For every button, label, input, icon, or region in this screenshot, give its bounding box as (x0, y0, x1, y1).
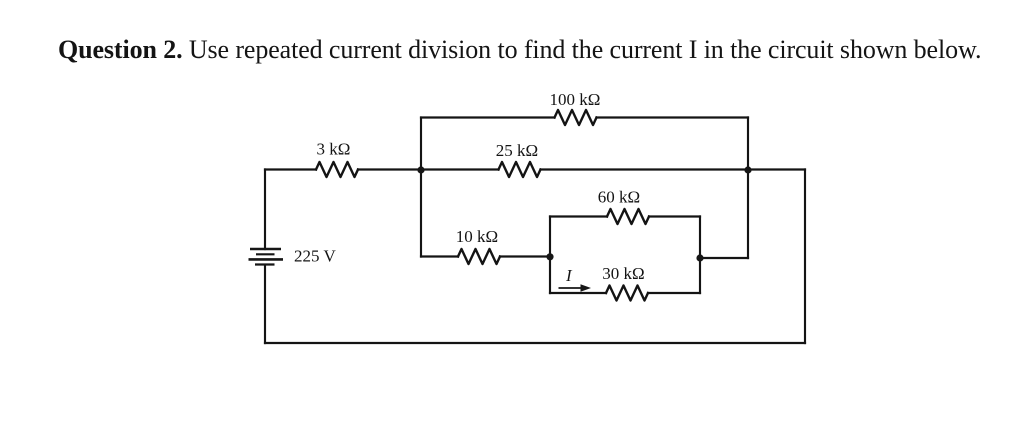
node D junction dot (700,258) (696, 254, 703, 261)
wire: bottom rail y=343 (265, 342, 805, 344)
svg-text:10 kΩ: 10 kΩ (456, 227, 498, 246)
battery V1 225V plates (249, 249, 284, 265)
wire: inner box top left of 60k (550, 215, 607, 217)
wire: left vertical above battery (264, 170, 266, 250)
wire: 10k branch right segment to inner box (500, 255, 550, 257)
svg-text:100 kΩ: 100 kΩ (550, 90, 601, 109)
svg-text:25 kΩ: 25 kΩ (496, 141, 538, 160)
wire: inner box top right of 60k (649, 215, 700, 217)
resistor R 3k zigzag (316, 162, 358, 177)
wire: top branch horizontal left of 100k (421, 116, 555, 118)
node A junction dot (421,170) (417, 166, 424, 173)
wire: top branch left vertical x=421 (420, 118, 422, 170)
current arrow for I (559, 284, 592, 291)
svg-text:Question 2. Use repeated curre: Question 2. Use repeated current divisio… (58, 35, 981, 64)
svg-text:60 kΩ: 60 kΩ (598, 187, 640, 206)
wire: inner box bottom right of 30k (648, 292, 700, 294)
svg-text:225 V: 225 V (294, 247, 336, 266)
wire: horizontal y=258 from inner box to x=748 (700, 257, 748, 259)
resistor R 30k zigzag (606, 286, 648, 301)
node C junction dot (550,257) (546, 253, 553, 260)
wire: vertical x=421 from rail down to 10k branch (420, 170, 422, 257)
resistor R 10k zigzag (458, 249, 500, 264)
svg-text:I: I (565, 266, 573, 285)
wire: main rail right of 25k to right corner (541, 168, 806, 170)
wire: top branch horizontal right of 100k (597, 116, 749, 118)
wire: right vertical x=748 from top branch down to y=258 (747, 118, 749, 259)
wire: inner box left vertical x=550 (549, 217, 551, 294)
svg-text:30 kΩ: 30 kΩ (602, 264, 644, 283)
wire: outer right vertical x=805 (804, 170, 806, 344)
wire: main rail between 3k and 25k (358, 168, 499, 170)
wire: inner box right vertical x=700 (699, 217, 701, 294)
wire: main rail y=170 left segment (265, 168, 316, 170)
node B junction dot (748,170) (744, 166, 751, 173)
resistor R 100k zigzag (555, 110, 597, 125)
wire: 10k branch left segment (421, 255, 458, 257)
resistor R 25k zigzag (499, 162, 541, 177)
wire: left vertical below battery (264, 266, 266, 344)
resistor R 60k zigzag (607, 209, 649, 224)
wire: inner box bottom left of 30k (550, 292, 606, 294)
svg-text:3 kΩ: 3 kΩ (317, 140, 351, 159)
